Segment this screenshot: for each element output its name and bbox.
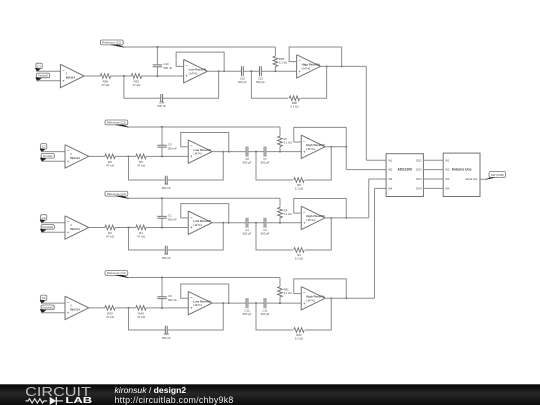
wire LPF output row2 [213,151,247,153]
wire INA output row2 [89,155,105,157]
wire LPF feedback loop row2 [181,133,229,152]
wire node A row1 [111,75,132,77]
svg-text:C3: C3 [42,216,46,220]
node HPF feedback junction row2 [345,146,347,148]
node C tap row4 [161,307,163,309]
svg-text:IN4: IN4 [388,187,393,191]
wire LPF feedback loop row4 [181,284,229,303]
svg-text:IN3: IN3 [388,177,393,181]
op-amp U2b LPF [188,140,212,163]
flag Reference (C2) row1 [100,40,123,45]
node A junction row2 [128,155,130,157]
resistor R49 47k row4 [136,306,146,311]
wire INA output row4 [89,307,105,309]
node LPF bottom junction row4 [222,302,224,304]
svg-text:500 nF: 500 nF [162,256,171,260]
wire channel 1 output to ADS1299 [320,65,366,67]
node ref/C9 tap row4 [161,277,163,279]
svg-text:500 µF: 500 µF [238,80,247,84]
flag Reference (C2) row2 [105,120,128,125]
svg-text:LM741: LM741 [193,152,202,156]
svg-text:5.1 kΩ: 5.1 kΩ [295,186,303,190]
svg-text:IN1: IN1 [388,158,393,162]
svg-text:500 nF: 500 nF [163,66,172,70]
node R shunt row1 [274,70,276,72]
node HPF feedback junction row3 [345,217,347,219]
resistor R6 47k row2 [105,154,115,159]
op-amp U1a INA114 [60,64,84,87]
svg-text:Reference (C2): Reference (C2) [107,121,126,125]
IC Arduino Uno [443,153,480,196]
wire node A row4 [115,307,136,309]
svg-text:5.1 kΩ: 5.1 kΩ [290,105,298,109]
wire INA output row3 [89,227,105,229]
wire LPF feedback loop row1 [176,52,224,71]
resistor R95 5.1k shunt row1 [274,47,276,56]
svg-text:47 kΩ: 47 kΩ [106,163,115,167]
svg-text:47 kΩ: 47 kΩ [137,163,146,167]
node LPF bottom junction row2 [222,151,224,153]
svg-text:500 nF: 500 nF [168,218,177,222]
svg-text:−: − [67,150,70,155]
op-amp U4c HPF [301,287,325,310]
node LPF bottom junction row3 [222,222,224,224]
wire channel 4 output to ADS1299 [325,297,375,299]
svg-text:C2: C2 [42,145,46,149]
svg-text:5.1 kΩ: 5.1 kΩ [295,256,303,260]
svg-text:5.1 kΩ: 5.1 kΩ [295,336,303,340]
svg-text:LAB: LAB [65,396,92,405]
IC ADS1299 [386,154,423,197]
resistor R4 5.1k feedback row3 [294,248,304,253]
flag Occipital2 row4 [41,305,54,310]
wire caps to HPF row4 [266,302,301,304]
flag SW (USB) output [489,171,506,177]
svg-text:+: + [303,221,306,226]
node HPF feedback junction row4 [345,297,347,299]
capacitor C12 500uF series row4 [245,298,247,308]
capacitor C4 500uF series row3 [245,218,247,228]
resistor R7 5.1k shunt row2 [279,127,281,136]
node A junction row1 [123,75,125,77]
svg-text:LM741: LM741 [193,223,202,227]
node C tap row3 [161,227,163,229]
svg-text:LM741: LM741 [306,298,315,302]
wire caps to HPF row1 [261,70,296,72]
node between caps row4 [255,302,257,304]
svg-text:5.1 kΩ: 5.1 kΩ [279,61,287,65]
svg-text:DO4: DO4 [416,187,422,191]
op-amp U3c HPF [301,206,325,229]
wire DO2 to Arduino IN2 [423,169,443,171]
wire reference net row3 [129,197,281,199]
flag Frontal2 row2 [41,154,54,159]
svg-text:500 µF: 500 µF [261,312,270,316]
wire LPF bottom feedback row3 [129,228,166,251]
flag Reference (C2) row3 [105,191,128,196]
wire HPF feedback loop row1 [289,47,342,66]
svg-text:47 kΩ: 47 kΩ [101,83,110,87]
wire LPF bottom feedback row2 [129,156,166,180]
svg-text:IN2: IN2 [445,168,450,172]
svg-text:DO2: DO2 [416,168,422,172]
wire INA output row1 [84,75,100,77]
svg-text:C1: C1 [37,64,41,68]
resistor R1 47k row3 [136,225,146,230]
wire LPF output row1 [208,70,242,72]
op-amp U4a INA114 [65,296,89,319]
resistor R51 5.1k shunt row4 [279,278,281,287]
svg-text:Frontal2: Frontal2 [43,154,53,158]
wire LPF bottom feedback row1 [124,76,161,98]
svg-text:kironsuk / design2: kironsuk / design2 [115,385,187,395]
svg-text:+: + [190,307,193,312]
wire inverting input row3 [41,222,65,224]
wire to LPF input row2 [146,155,188,157]
wire inverting input row2 [41,151,65,153]
svg-text:INA114: INA114 [70,156,80,160]
wire non-inverting input row3 [41,231,65,233]
svg-text:+: + [190,226,193,231]
wire channel 2 output to ADS1299 [325,146,346,148]
capacitor C14 500nF feedback row1 [160,94,162,102]
svg-text:Reference (C2): Reference (C2) [107,192,126,196]
node R shunt row4 [279,302,281,304]
op-amp U2a INA114 [65,145,89,168]
svg-text:47 kΩ: 47 kΩ [137,315,146,319]
node HPF bottom junction row1 [326,65,328,67]
node C tap row2 [161,155,163,157]
svg-text:500 µF: 500 µF [261,232,270,236]
svg-text:500 µF: 500 µF [243,232,252,236]
node HPF bottom junction row2 [330,146,332,148]
resistor R50 47k row4 [105,306,115,311]
resistor R3 5.1k shunt row3 [279,198,281,207]
capacitor C5 500nF shunt row2 [161,127,163,145]
svg-text:Occipital2: Occipital2 [42,306,54,310]
svg-text:+: + [298,70,301,75]
capacitor C1 500nF shunt row3 [161,198,163,216]
capacitor C13 500nF feedback row4 [164,326,166,334]
svg-text:LM741: LM741 [302,67,311,71]
wire non-inverting input row2 [41,160,65,162]
svg-text:IN1: IN1 [445,158,450,162]
capacitor C10 500nF shunt row1 [156,47,158,65]
svg-text:IN4: IN4 [445,187,450,191]
wire HPF bottom feedback row4 [256,303,293,330]
wire node A row3 [115,227,136,229]
node LPF output feedback row2 [228,151,230,153]
svg-text:+: + [67,160,70,165]
op-amp U2c HPF [301,135,325,158]
wire channel 3 output to ADS1299 [325,217,369,219]
svg-text:−: − [67,301,70,306]
logo resistor zigzag [26,399,48,403]
op-amp U3a INA114 [65,216,89,239]
wire between caps row2 [248,151,264,153]
svg-text:IN2: IN2 [388,168,393,172]
wire DO1 to Arduino IN1 [423,159,443,161]
wire Serial Out [480,178,486,180]
wire between caps row1 [243,70,259,72]
resistor R5 47k row2 [136,154,146,159]
flag C3 row3 [41,215,47,220]
resistor R2 47k row3 [105,225,115,230]
wire HPF bottom feedback row1 [251,71,288,98]
flag C1 row1 [36,63,42,68]
svg-text:500 µF: 500 µF [256,80,265,84]
wire to LPF input row1 [142,75,184,77]
svg-text:500 nF: 500 nF [168,298,177,302]
flag Frontal1 row1 [37,73,50,78]
flag C4 row4 [41,295,47,300]
capacitor C11 500uF series row4 [263,298,265,308]
node LPF bottom junction row1 [218,70,220,72]
resistor R96 5.1k feedback row1 [289,96,299,101]
wire reference net row2 [129,126,281,128]
svg-text:47 kΩ: 47 kΩ [106,235,115,239]
svg-text:500 nF: 500 nF [157,104,166,108]
wire inverting input row4 [41,302,65,304]
wire HPF feedback loop row2 [294,127,347,146]
op-amp U3b LPF [188,211,212,234]
wire LPF feedback loop row3 [181,204,229,223]
wire reference net row4 [129,277,281,279]
svg-text:ADS1299: ADS1299 [398,168,412,172]
node HPF bottom junction row4 [330,297,332,299]
wire HPF bottom feedback row3 [256,223,293,250]
svg-text:Reference (C2): Reference (C2) [107,271,126,275]
svg-text:LM741: LM741 [306,147,315,151]
svg-text:500 nF: 500 nF [168,146,177,150]
wire node A row2 [115,155,136,157]
capacitor C2 500nF feedback row3 [164,246,166,254]
wire LPF output row3 [213,222,247,224]
svg-text:Reference (C2): Reference (C2) [102,41,121,45]
svg-text:Serial Out: Serial Out [465,177,477,181]
wire HPF bottom feedback row2 [256,152,293,180]
node ref/C1 tap row3 [161,197,163,199]
op-amp U4b LPF [188,291,212,314]
node A junction row4 [128,307,130,309]
flag C2 row2 [41,144,47,149]
node HPF feedback junction row1 [341,65,343,67]
wire to LPF input row4 [146,307,188,309]
resistor R8 5.1k feedback row2 [294,178,304,183]
svg-text:5.1 kΩ: 5.1 kΩ [284,291,292,295]
svg-text:INA114: INA114 [70,307,80,311]
svg-text:INA114: INA114 [70,227,80,231]
node HPF bottom junction row3 [330,217,332,219]
svg-text:DO3: DO3 [416,177,422,181]
node LPF output feedback row1 [223,70,225,72]
svg-text:500 µF: 500 µF [261,160,270,164]
wire DO4 to Arduino IN4 [423,187,443,189]
wire HPF feedback loop row4 [294,279,347,298]
node ref/C10 tap row1 [156,46,158,48]
svg-text:47 kΩ: 47 kΩ [132,83,141,87]
svg-text:+: + [185,75,188,80]
node ref/C5 tap row2 [161,126,163,128]
svg-text:47 kΩ: 47 kΩ [137,235,146,239]
svg-text:500 µF: 500 µF [243,160,252,164]
svg-text:C4: C4 [42,296,46,300]
resistor R53 47k row1 [131,74,141,79]
resistor R52 5.1k feedback row4 [294,328,304,333]
wire between caps row4 [248,302,264,304]
node LPF output feedback row4 [228,302,230,304]
svg-text:+: + [67,311,70,316]
svg-text:+: + [62,80,65,85]
svg-text:500 nF: 500 nF [162,336,171,340]
svg-text:Arduino Uno: Arduino Uno [452,168,472,172]
flag Occipital1 row3 [41,225,54,230]
capacitor C16 500uF series row1 [241,66,243,76]
node R shunt row2 [279,151,281,153]
svg-text:+: + [67,231,70,236]
capacitor C7 500uF series row2 [263,147,265,157]
svg-text:5.1 kΩ: 5.1 kΩ [284,212,292,216]
node C tap row1 [156,75,158,77]
svg-text:LM741: LM741 [193,303,202,307]
wire caps to HPF row3 [266,222,301,224]
node between caps row3 [255,222,257,224]
svg-text:http://circuitlab.com/chby9k8: http://circuitlab.com/chby9k8 [115,395,234,405]
svg-text:+: + [303,150,306,155]
capacitor C9 500nF shunt row4 [161,278,163,297]
svg-text:DO1: DO1 [416,158,422,162]
svg-text:−: − [62,69,65,74]
flag Reference (C2) row4 [105,271,128,276]
wire DO3 to Arduino IN3 [423,178,443,180]
svg-text:500 µF: 500 µF [243,312,252,316]
wire reference net row1 [124,46,276,48]
svg-text:SW (USB): SW (USB) [491,173,504,177]
node A junction row3 [128,227,130,229]
wire LPF output row4 [213,302,247,304]
op-amp U1b LPF [184,60,208,83]
node R shunt row3 [279,222,281,224]
svg-text:5.1 kΩ: 5.1 kΩ [284,141,292,145]
op-amp U1c HPF [297,55,321,78]
node between caps row1 [250,70,252,72]
svg-text:+: + [190,155,193,160]
wire LPF bottom feedback row4 [129,308,166,330]
node between caps row2 [255,151,257,153]
logo diode [50,397,56,405]
wire caps to HPF row2 [266,151,301,153]
wire non-inverting input row4 [41,312,65,314]
svg-text:Occipital1: Occipital1 [42,225,54,229]
resistor R56 47k row1 [100,74,110,79]
wire non-inverting input row1 [37,80,61,82]
capacitor C15 500uF series row1 [259,66,261,76]
wire HPF feedback loop row3 [294,199,347,218]
wire to LPF input row3 [146,227,188,229]
svg-text:Frontal1: Frontal1 [38,74,48,78]
capacitor C3 500uF series row3 [263,218,265,228]
svg-text:IN3: IN3 [445,177,450,181]
wire between caps row3 [248,222,264,224]
svg-text:47 kΩ: 47 kΩ [106,315,115,319]
svg-text:500 nF: 500 nF [162,186,171,190]
node LPF output feedback row3 [228,222,230,224]
svg-text:LM741: LM741 [189,71,198,75]
svg-text:INA114: INA114 [66,75,76,79]
svg-text:−: − [67,221,70,226]
capacitor C6 500nF feedback row2 [164,176,166,184]
svg-text:LM741: LM741 [306,218,315,222]
wire inverting input row1 [37,70,61,72]
capacitor C8 500uF series row2 [245,147,247,157]
svg-text:+: + [303,302,306,307]
